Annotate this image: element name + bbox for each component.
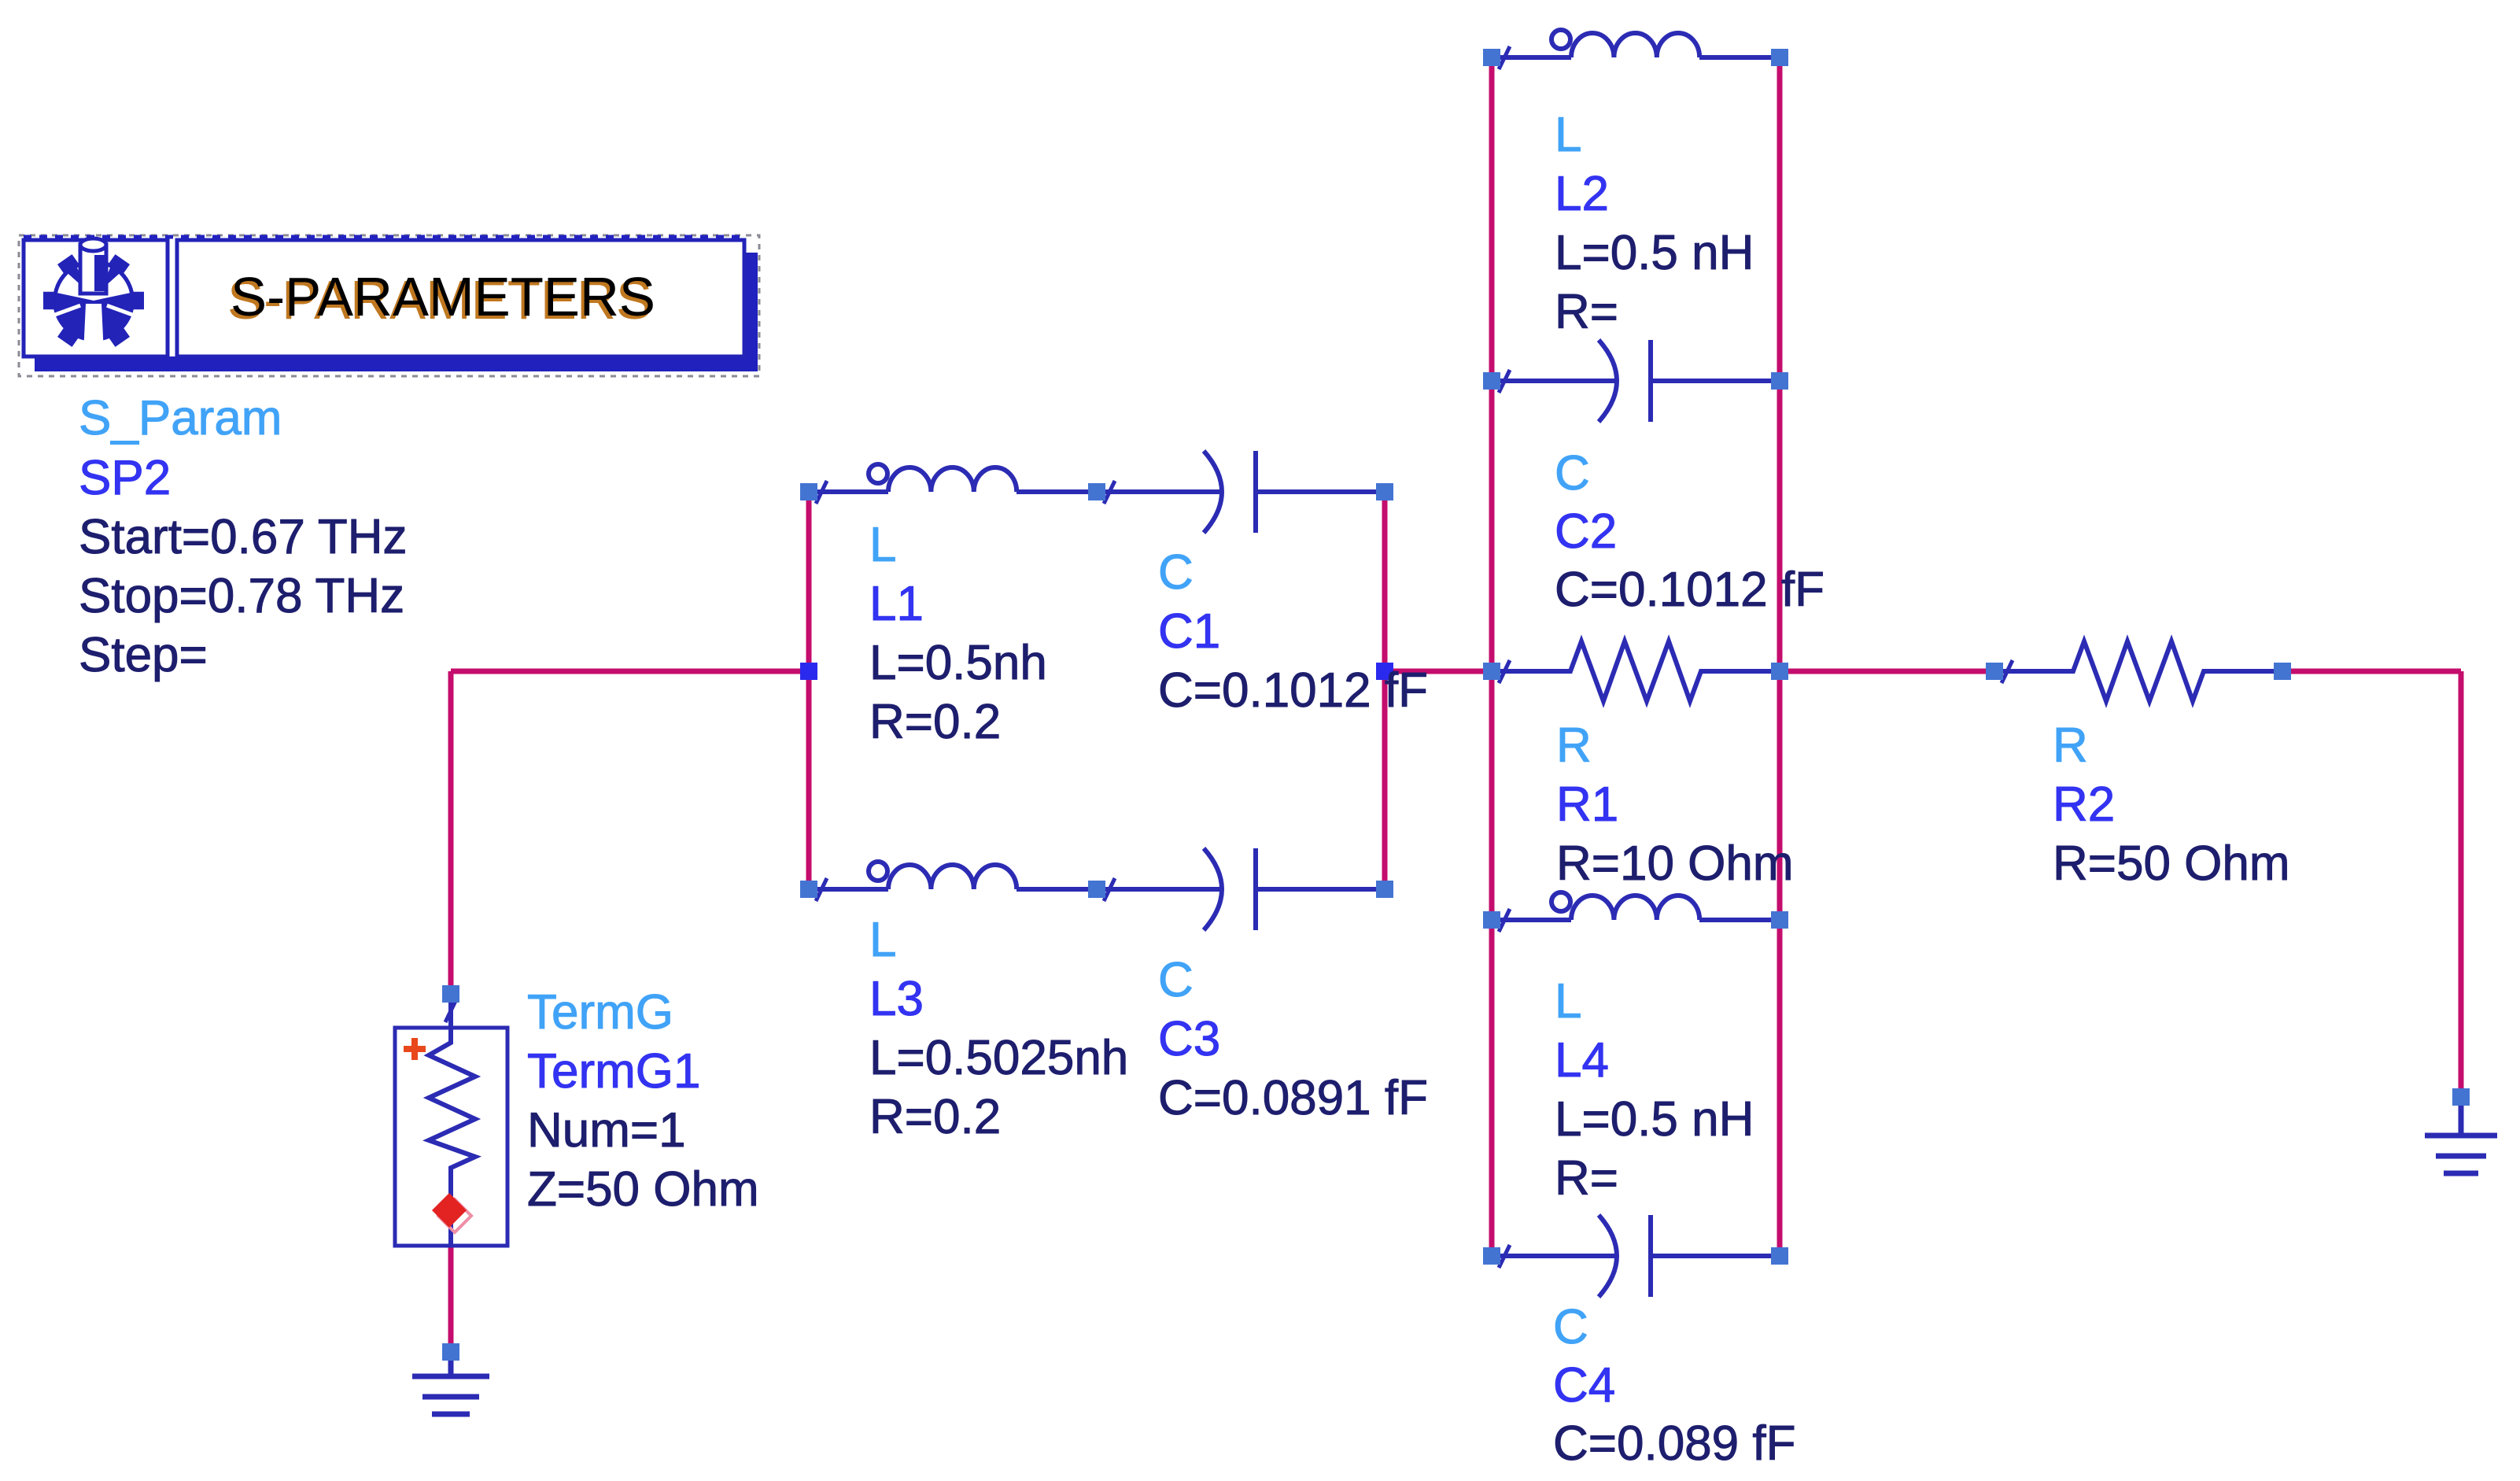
S-PARAMETERS controller top blue dashes <box>24 235 744 239</box>
svg-text:C: C <box>1553 1300 1588 1354</box>
node: C2 pin1 <box>1483 372 1500 390</box>
node: C4 pin1 <box>1483 1247 1500 1265</box>
node: TermG1 ground <box>442 1343 459 1361</box>
resistor R2 <box>1994 641 2282 701</box>
node: L2 pin2 <box>1771 49 1788 66</box>
svg-text:R=: R= <box>1555 1151 1618 1206</box>
svg-text:C=0.1012 fF: C=0.1012 fF <box>1555 563 1825 617</box>
svg-text:R=: R= <box>1555 285 1618 339</box>
pin tick R1 pin1 <box>1499 660 1510 683</box>
svg-text:L=0.5 nH: L=0.5 nH <box>1555 226 1754 280</box>
svg-text:C=0.089 fF: C=0.089 fF <box>1553 1416 1795 1471</box>
pin tick L1 pin1 <box>816 481 827 504</box>
capacitor C2 <box>1492 340 1780 422</box>
pin tick L4 pin1 <box>1499 909 1510 932</box>
wire: loop output to cross junction <box>1385 669 1492 674</box>
svg-text:TermG: TermG <box>527 985 673 1040</box>
inductor L2 <box>1492 30 1780 57</box>
resistor R1 <box>1492 641 1780 701</box>
svg-text:S_Param: S_Param <box>79 391 282 445</box>
svg-text:L2: L2 <box>1555 167 1609 221</box>
S-PARAMETERS controller icon cell box <box>24 240 168 356</box>
svg-text:R=0.2: R=0.2 <box>869 695 1001 749</box>
svg-text:Num=1: Num=1 <box>527 1103 686 1158</box>
svg-text:SP2: SP2 <box>79 451 171 505</box>
svg-text:C3: C3 <box>1158 1012 1220 1066</box>
svg-text:C4: C4 <box>1553 1358 1615 1413</box>
node: TermG1 top <box>442 985 459 1003</box>
wire: right vertical down to ground <box>2459 671 2464 1097</box>
inductor L4 <box>1492 892 1780 920</box>
node: L3/C3 mid <box>1088 881 1105 898</box>
ground symbol below TermG1 <box>412 1352 489 1414</box>
svg-text:R=0.2: R=0.2 <box>869 1090 1001 1144</box>
svg-text:L3: L3 <box>869 972 924 1026</box>
wire: R2 output to right corner <box>2282 669 2461 674</box>
svg-text:L: L <box>1555 974 1581 1029</box>
node: R2 pin1 <box>1986 663 2003 680</box>
svg-text:S-PARAMETERS: S-PARAMETERS <box>231 266 655 327</box>
svg-text:R=50 Ohm: R=50 Ohm <box>2053 837 2290 891</box>
gear icon of S-parameters controller <box>43 238 144 354</box>
svg-text:C=0.0891 fF: C=0.0891 fF <box>1158 1071 1428 1125</box>
svg-text:C2: C2 <box>1555 504 1617 559</box>
svg-text:R2: R2 <box>2053 777 2115 832</box>
S-PARAMETERS controller title cell box <box>177 240 744 356</box>
svg-text:L: L <box>869 518 896 572</box>
wire: right vertical of C1/C3 loop <box>1382 492 1388 889</box>
pin tick C4 pin1 <box>1499 1245 1510 1268</box>
capacitor C3 <box>1097 848 1385 930</box>
node: L2 pin1 <box>1483 49 1500 66</box>
node: right ground <box>2452 1088 2470 1106</box>
pin tick L2 pin1 <box>1499 46 1510 69</box>
node: L4 pin2 <box>1771 911 1788 929</box>
node: L4 pin1 <box>1483 911 1500 929</box>
svg-text:Stop=0.78 THz: Stop=0.78 THz <box>79 569 404 623</box>
pin tick R2 pin1 <box>2002 660 2013 683</box>
node: C4 pin2 <box>1771 1247 1788 1265</box>
node: C3 pin2 <box>1376 881 1393 898</box>
wire: R1 output to R2 input <box>1780 669 1994 674</box>
pin tick L3 pin1 <box>816 878 827 901</box>
pin tick C1 pin1 <box>1104 481 1115 504</box>
TermG1 body box <box>395 1028 507 1246</box>
wire: left vertical rail through L2 C2 R1 L4 C4 <box>1489 57 1495 1256</box>
S-PARAMETERS controller shadow bottom bar <box>35 356 758 371</box>
node: C2 pin2 <box>1771 372 1788 390</box>
svg-text:C: C <box>1555 446 1590 500</box>
svg-text:Start=0.67 THz: Start=0.67 THz <box>79 510 408 564</box>
svg-text:Step=: Step= <box>79 628 208 682</box>
svg-text:C: C <box>1158 545 1194 600</box>
node: branch junction <box>800 663 817 680</box>
TermG1 pin tick <box>445 999 456 1022</box>
svg-text:L=0.5 nH: L=0.5 nH <box>1555 1092 1754 1147</box>
wire: right vertical rail through L2 C2 R1 L4 C4 <box>1777 57 1783 1256</box>
S-PARAMETERS controller dashed selection border <box>19 235 759 376</box>
svg-text:L=0.5025nh: L=0.5025nh <box>869 1031 1128 1085</box>
S-PARAMETERS controller shadow right bar <box>744 253 758 371</box>
node: C1 pin2 <box>1376 483 1393 500</box>
ground symbol at right output <box>2425 1097 2497 1173</box>
node: R2 pin2 <box>2274 663 2291 680</box>
svg-text:R: R <box>1556 718 1592 773</box>
svg-text:L: L <box>1555 108 1581 162</box>
svg-text:R1: R1 <box>1556 777 1618 832</box>
node: R1 pin2 <box>1771 663 1788 680</box>
capacitor C4 <box>1492 1215 1780 1297</box>
node: L3 pin1 <box>800 881 817 898</box>
node: cross junction at R1 input <box>1483 663 1500 680</box>
node: L1/C1 mid <box>1088 483 1105 500</box>
svg-text:R=10 Ohm: R=10 Ohm <box>1556 837 1794 891</box>
TermG1 internal resistor <box>429 994 475 1246</box>
svg-text:C: C <box>1158 953 1194 1007</box>
svg-text:L1: L1 <box>869 577 924 631</box>
TermG1 red arrow diamond <box>438 1199 471 1232</box>
capacitor C1 <box>1097 451 1385 533</box>
inductor L3 <box>809 862 1097 889</box>
svg-text:C1: C1 <box>1158 604 1220 659</box>
node: loop output <box>1376 663 1393 680</box>
inductor L1 <box>809 464 1097 492</box>
svg-text:L4: L4 <box>1555 1033 1609 1088</box>
wire: main row from TermG corner to branch junction <box>451 669 809 674</box>
node: L1 pin1 <box>800 483 817 500</box>
pin tick C3 pin1 <box>1104 878 1115 901</box>
svg-text:L: L <box>869 913 896 967</box>
svg-text:L=0.5nh: L=0.5nh <box>869 636 1047 690</box>
svg-text:Z=50 Ohm: Z=50 Ohm <box>527 1162 759 1217</box>
terminal TermG1 <box>395 994 507 1246</box>
TermG1 plus polarity mark <box>404 1038 426 1060</box>
pin tick C2 pin1 <box>1499 370 1510 393</box>
wire: TermG bottom to ground <box>448 1246 454 1352</box>
wire: vertical down to TermG <box>448 671 454 994</box>
svg-text:R: R <box>2053 718 2088 773</box>
wire: left vertical of L1/L3 loop <box>806 492 812 889</box>
svg-text:C=0.1012 fF: C=0.1012 fF <box>1158 663 1428 718</box>
svg-text:TermG1: TermG1 <box>527 1044 700 1099</box>
